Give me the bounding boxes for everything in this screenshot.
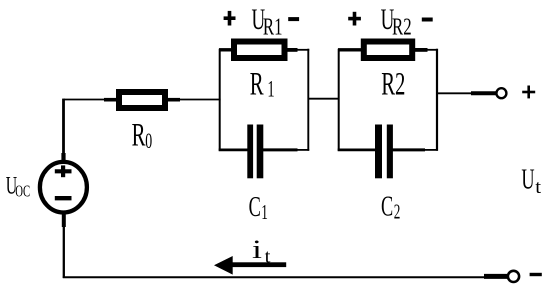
resistor R1 [234, 42, 285, 59]
svg-text:R: R [250, 65, 264, 102]
svg-text:U: U [521, 163, 534, 195]
label R1 [250, 65, 275, 103]
label C2 [381, 190, 400, 223]
wire [219, 148, 249, 151]
svg-text:t: t [535, 177, 541, 198]
label R2 [381, 65, 405, 102]
node block1 right edge [307, 49, 309, 151]
svg-text:R: R [132, 115, 146, 152]
svg-text:OC: OC [15, 182, 30, 201]
wire [484, 274, 508, 279]
svg-text:t: t [265, 246, 271, 267]
wire [219, 48, 233, 51]
svg-text:0: 0 [145, 129, 152, 153]
terminal - (bottom right) [508, 271, 542, 282]
wire [412, 48, 438, 52]
node block1 left edge [219, 49, 221, 151]
capacitor C1 [247, 125, 263, 179]
svg-text:2: 2 [394, 199, 401, 223]
capacitor C2 [375, 125, 393, 179]
svg-text:i: i [252, 235, 262, 264]
label i_t [252, 235, 271, 267]
wire [62, 99, 65, 162]
label + U_R2 - [348, 4, 433, 40]
wire [63, 276, 485, 278]
svg-text:1: 1 [261, 200, 268, 224]
wire [437, 92, 496, 94]
node block2 left edge [338, 49, 340, 151]
svg-text:1: 1 [267, 77, 274, 102]
wire [338, 48, 363, 51]
label U_OC [6, 171, 30, 202]
svg-text:C: C [381, 190, 393, 222]
wire [392, 148, 438, 151]
wire [308, 98, 339, 100]
svg-text:R2: R2 [392, 15, 412, 40]
wire [167, 98, 221, 102]
terminal + (top right) [496, 86, 535, 99]
svg-text:C: C [249, 191, 261, 223]
voltage source U_OC [40, 162, 87, 213]
svg-text:R2: R2 [381, 65, 405, 102]
label U_t [521, 163, 541, 197]
wire [285, 48, 309, 52]
current arrow i_t [214, 256, 286, 275]
wire [262, 148, 309, 151]
node block2 right edge [436, 49, 438, 151]
svg-text:R1: R1 [263, 15, 283, 40]
label + U_R1 - [224, 4, 300, 40]
wire [62, 214, 66, 279]
resistor R0 [119, 92, 165, 108]
label R0 [132, 115, 153, 152]
wire [338, 148, 377, 151]
resistor R2 [364, 42, 412, 59]
wire [64, 99, 118, 101]
label C1 [249, 191, 268, 224]
